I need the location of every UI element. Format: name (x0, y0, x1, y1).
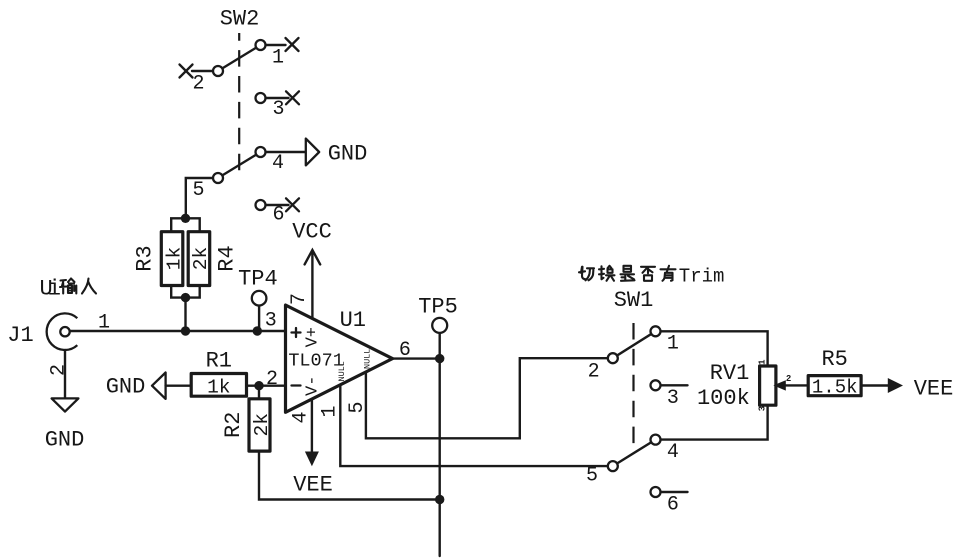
wire SW1 pin6 stub (656, 491, 688, 493)
op-amp pin number 7 (288, 293, 311, 305)
op-amp pin number 2 (266, 368, 278, 391)
wire R5 to VEE (861, 384, 888, 386)
RV1 pin number 1 (757, 359, 767, 365)
SW1 pin number 3 (667, 387, 679, 410)
value TL071 (288, 350, 344, 371)
value 1k of R3 (163, 247, 185, 270)
value 2k of R2 (251, 413, 273, 436)
svg-text:1: 1 (757, 359, 767, 365)
switch SW2 label (220, 7, 260, 32)
svg-text:6: 6 (399, 339, 411, 362)
svg-text:100k: 100k (697, 386, 750, 411)
svg-text:4: 4 (272, 152, 284, 175)
wire junction down to R2 (258, 386, 260, 399)
svg-text:R5: R5 (821, 347, 847, 372)
svg-text:VEE: VEE (914, 377, 954, 402)
op-amp plus input marking (292, 328, 301, 337)
svg-text:4: 4 (667, 441, 679, 464)
svg-text:R1: R1 (206, 349, 232, 374)
SW2 pin number 2 (192, 73, 204, 96)
svg-text:SW1: SW1 (614, 288, 654, 313)
svg-text:1: 1 (667, 333, 679, 356)
SW2 pin number 4 (272, 152, 284, 175)
svg-text:4: 4 (290, 411, 313, 423)
SW2 pin number 6 (272, 204, 284, 227)
wire op-amp pin6 output (393, 357, 440, 359)
svg-text:U1: U1 (340, 308, 366, 333)
svg-text:Trim: Trim (679, 266, 725, 288)
svg-text:3: 3 (667, 387, 679, 410)
svg-text:TL071: TL071 (288, 350, 344, 371)
node junction output/R2 (435, 495, 444, 504)
wire R3/R4 down to input net (184, 298, 186, 331)
resistor R4 (188, 232, 210, 286)
CJK 输入 of Ui input label (60, 279, 76, 294)
node R3/R4 top junction (181, 214, 190, 223)
switch SW2 pin circles (213, 40, 266, 210)
wire output net down (439, 359, 441, 556)
switch SW1 arm pin2-pin1 (613, 331, 656, 358)
label R2 (221, 412, 246, 438)
node junction R1/R2/pin2 (254, 381, 263, 390)
svg-text:3: 3 (272, 98, 284, 121)
svg-text:VCC: VCC (292, 220, 332, 245)
svg-text:6: 6 (667, 494, 679, 517)
no-connect X at SW2 pin3 (286, 91, 299, 104)
svg-text:5: 5 (586, 465, 598, 488)
op-amp pin number 4 (290, 411, 313, 423)
test point TP4 (238, 267, 278, 332)
svg-text:SW2: SW2 (220, 7, 260, 32)
svg-text:R4: R4 (215, 245, 240, 271)
resistor R1 (191, 374, 246, 397)
switch SW2 dashed link line (238, 33, 240, 171)
svg-text:J1: J1 (7, 323, 33, 348)
label R1 (206, 349, 232, 374)
svg-text:GND: GND (45, 428, 85, 453)
svg-text:R3: R3 (133, 245, 158, 271)
svg-text:NULL: NULL (337, 361, 347, 381)
potentiometer RV1 body (760, 366, 776, 405)
wire R3/R4 bottom tee (171, 286, 200, 298)
label R3 (133, 245, 158, 271)
op-amp pin name NULL (pin5) (362, 349, 372, 369)
test point TP5 (418, 295, 458, 359)
svg-text:1: 1 (318, 405, 341, 417)
wire SW2 pin5 down to R3/R4 (186, 178, 218, 218)
svg-text:2k: 2k (190, 247, 212, 270)
node junction input net at TP4 (253, 326, 262, 335)
svg-text:VEE: VEE (293, 473, 333, 498)
wire SW2 pin6 stub (261, 204, 289, 206)
op-amp U1 triangle body (286, 305, 393, 412)
op-amp pin name V- (304, 376, 323, 396)
SW1 pin number 2 (588, 361, 600, 384)
op-amp minus input marking (292, 384, 301, 386)
power symbol VEE arrow below op-amp (293, 452, 333, 498)
svg-text:3: 3 (265, 310, 277, 333)
svg-text:2: 2 (786, 374, 791, 384)
value 1.5k of R5 (812, 377, 858, 399)
RV1 wiper arrow (773, 380, 808, 390)
power symbol GND below J1 (45, 398, 85, 452)
wire op-amp pin7 to VCC (311, 251, 313, 319)
resistor R3 (161, 232, 183, 286)
SW2 pin number 1 (272, 47, 284, 70)
wire R1 to op-amp pin2 (247, 385, 286, 387)
resistor R2 (249, 399, 270, 451)
svg-text:1.5k: 1.5k (812, 377, 858, 399)
svg-text:1k: 1k (163, 247, 185, 270)
power symbol VEE right (888, 377, 954, 402)
wire SW1 pin1 to RV1 top (656, 331, 768, 366)
label Ui input (CJK) (40, 277, 61, 302)
svg-text:R2: R2 (221, 412, 246, 438)
svg-text:GND: GND (106, 375, 146, 400)
label 切换是否有Trim (CJK + Trim) (579, 267, 594, 281)
wire op-amp pin1 to SW1 pin5 (340, 385, 608, 466)
op-amp pin number 6 (399, 339, 411, 362)
op-amp pin name NULL (pin1) (337, 361, 347, 381)
node R3/R4 bottom junction (181, 293, 190, 302)
svg-text:2: 2 (588, 361, 600, 384)
SW2 pin number 3 (272, 98, 284, 121)
svg-text:2: 2 (48, 364, 71, 376)
power symbol VCC arrow (292, 220, 332, 265)
svg-text:2k: 2k (251, 413, 273, 436)
power symbol GND (right of SW2 pin4) (306, 139, 368, 167)
op-amp pin number 3 (265, 310, 277, 333)
RV1 pin number 2 (786, 374, 791, 384)
wire op-amp pin4 down (311, 399, 313, 452)
op-amp pin name V+ (304, 327, 323, 347)
switch SW2 arm pin2-pin1 (218, 45, 261, 71)
svg-text:6: 6 (272, 204, 284, 227)
wire SW2 pin2 to no-connect (192, 70, 218, 72)
J1 pin number 1 (98, 312, 110, 335)
label RV1 (710, 361, 750, 386)
svg-text:1k: 1k (207, 377, 230, 399)
wire SW2 pin3 stub (261, 97, 289, 99)
power symbol GND left of R1 (106, 373, 166, 400)
wire SW2 pin4 to GND (261, 151, 306, 153)
svg-text:5: 5 (192, 179, 204, 202)
svg-text:i: i (48, 277, 61, 302)
value 2k of R4 (190, 247, 212, 270)
wire R2 bottom to output net (259, 451, 440, 499)
wire GND to R1 (166, 385, 192, 387)
svg-text:2: 2 (266, 368, 278, 391)
svg-text:NULL: NULL (362, 349, 372, 369)
svg-text:5: 5 (346, 401, 369, 413)
no-connect X at SW2 pin2 (180, 65, 193, 78)
SW1 pin number 1 (667, 333, 679, 356)
svg-text:V-: V- (304, 376, 323, 396)
wire SW1 pin4 to RV1 bottom (656, 405, 768, 439)
connector J1 label (7, 323, 33, 348)
switch SW1 dashed link line (632, 323, 634, 453)
value 100k of RV1 (697, 386, 750, 411)
label R5 (821, 347, 847, 372)
op-amp pin number 1 (318, 405, 341, 417)
label U1 (340, 308, 366, 333)
resistor R5 (808, 376, 861, 396)
SW1 pin number 6 (667, 494, 679, 517)
RV1 pin number 3 (757, 406, 767, 411)
switch SW1 label (614, 288, 654, 313)
connector J1 BNC inner circle (60, 327, 69, 336)
node junction input net at R3/R4 (181, 326, 190, 335)
wire J1 shield down (64, 350, 66, 398)
wire SW1 pin3 stub (656, 384, 688, 386)
no-connect X at SW2 pin1 (286, 38, 299, 51)
SW1 pin number 4 (667, 441, 679, 464)
svg-text:2: 2 (192, 73, 204, 96)
wire SW2 pin1 to no-connect (261, 44, 286, 46)
wire input net J1 to op-amp pin3 (70, 330, 286, 332)
no-connect X at SW2 pin6 (286, 198, 299, 211)
wire op-amp pin5 to SW1 pin2 (366, 358, 608, 438)
switch SW1 pin circles (608, 326, 661, 497)
switch SW1 arm pin5-pin4 (613, 440, 656, 467)
svg-text:RV1: RV1 (710, 361, 750, 386)
SW1 pin number 5 (586, 465, 598, 488)
op-amp pin number 5 (346, 401, 369, 413)
svg-text:7: 7 (288, 293, 311, 305)
svg-text:V+: V+ (304, 327, 323, 347)
svg-text:GND: GND (328, 142, 368, 167)
connector J1 BNC outer arc (47, 313, 78, 350)
J1 pin number 2 (48, 364, 71, 376)
label R4 (215, 245, 240, 271)
node junction at TP5/output (435, 354, 444, 363)
SW2 pin number 5 (192, 179, 204, 202)
svg-text:TP4: TP4 (238, 267, 278, 292)
svg-text:TP5: TP5 (418, 295, 458, 320)
switch SW2 arm pin5-pin4 (218, 152, 261, 178)
wire R3/R4 top tee (171, 218, 200, 231)
svg-text:3: 3 (757, 406, 767, 411)
svg-text:1: 1 (272, 47, 284, 70)
value 1k of R1 (207, 377, 230, 399)
